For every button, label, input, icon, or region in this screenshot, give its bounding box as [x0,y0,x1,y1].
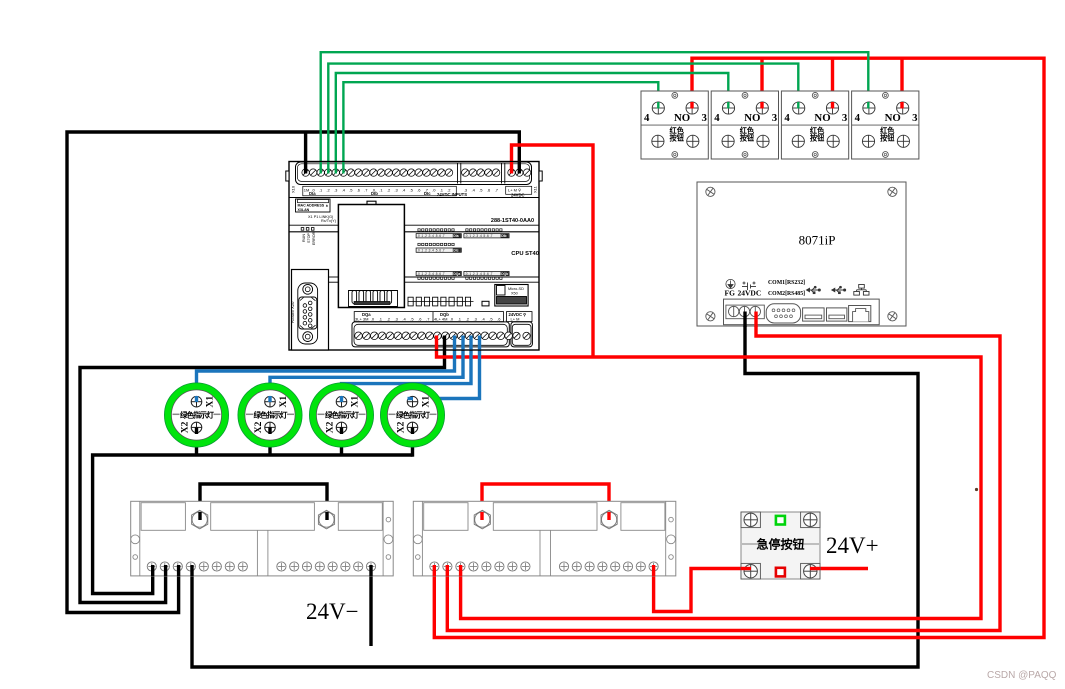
wire black lights common rail [93,455,413,594]
wire end stubs overlaying terminals [153,102,902,576]
HMI FG ground icon [726,279,735,288]
wire red PLC output 3L+ rail to TB2 terminal 3 [437,338,982,619]
svg-text:X1: X1 [206,396,216,408]
svg-text:DIb: DIb [501,234,506,238]
wire stub red PLC top L+ [510,162,513,174]
svg-text:288-1ST40-0AA0: 288-1ST40-0AA0 [491,218,534,224]
wire red button3 drop [831,58,834,109]
svg-text:X10: X10 [291,185,296,193]
wire stubs green PLC top DI [320,162,322,174]
svg-text:3: 3 [912,112,918,124]
svg-text:急停按钮: 急停按钮 [756,537,804,552]
wire red buttons common to TB2 terminal 1 [434,58,1044,637]
svg-text:NO: NO [814,112,830,124]
PLC bottom terminal strip [352,322,509,347]
HMI corner screw top-right [888,187,897,196]
wire stubs TB2 hex jumper [480,512,483,520]
PLC bottom label row [354,312,532,322]
SB1 lower screw right [687,135,699,147]
wire green PLC DIa.4 to button3 [328,64,798,166]
svg-text:DQa: DQa [453,272,460,276]
SB4 lower screw right [897,135,909,147]
svg-text:COM1[RS232]: COM1[RS232] [768,280,805,286]
SB4 lower screw left [862,135,874,147]
pushbutton SB3 红色按钮 [781,91,848,159]
HL3 terminal X2 screw [336,422,347,433]
PLC RUN STOP ERROR LEDs [301,228,316,245]
PLC LED row B squares DIc [416,243,461,252]
svg-text:X2: X2 [254,421,264,433]
wire stubs estop [741,567,751,570]
svg-text:Micro-SD: Micro-SD [508,287,524,291]
indicator light HL4 绿色指示灯 [380,383,444,447]
svg-text:X50: X50 [511,292,518,296]
svg-text:X2: X2 [181,421,191,433]
SB3 terminal 3 screw [826,102,838,114]
wire black light3 X2 drop [340,427,343,455]
svg-text:CPU ST40: CPU ST40 [511,251,539,257]
estop screw top-right [804,513,817,526]
PLC RS485 DB9 compartment [292,270,329,351]
indicator light HL3 绿色指示灯 [309,383,373,447]
svg-text:ERROR: ERROR [312,231,316,245]
wire black light1 X2 drop [195,427,198,455]
svg-text:DQb: DQb [501,272,508,276]
PLC bottom terminals L+ M (2 screws) [513,332,530,339]
SB1 terminal 3 screw [686,102,698,114]
svg-text:DIb: DIb [371,191,378,196]
wire black TB1 jumper [200,484,327,519]
estop screw top-left [744,513,757,526]
svg-text:.0 .1 .2 .3 .4 .5 .6 .7: .0 .1 .2 .3 .4 .5 .6 .7 [417,249,445,253]
svg-text:绿色指示灯: 绿色指示灯 [180,409,214,419]
estop screw bottom-right [804,565,817,578]
PLC right mounting tab [539,171,542,181]
wire black light2 X2 drop [268,427,271,455]
HMI ethernet icon [854,285,869,296]
SB2 lower screw right [757,135,769,147]
svg-text:X1: X1 [279,396,289,408]
wire black HMI 0V to TB1 terminal 4 [192,310,918,667]
PLC DB9 connector [298,283,318,344]
svg-text:绿色指示灯: 绿色指示灯 [396,409,430,419]
PLC left mounting tab [286,171,289,181]
svg-text:DIc: DIc [453,249,458,253]
svg-text:按钮: 按钮 [670,134,685,143]
svg-text:.0 .1 .2 .3 .4 .5 .6 .7: .0 .1 .2 .3 .4 .5 .6 .7 [417,272,445,276]
svg-text:DIa: DIa [309,191,316,196]
wire stubs PLC bottom [435,336,438,350]
HMI corner screw bottom-right [888,312,897,321]
PLC bottom terminals (18 screws) [355,332,513,340]
svg-text:DIa: DIa [453,234,458,238]
svg-text:4: 4 [644,112,650,124]
wire green PLC DIa.5 to button2 [336,73,729,166]
HMI bottom connector strip [724,299,880,325]
svg-text:L+ M: L+ M [511,317,520,322]
wire stubs TB2 bottom terminals [433,565,436,576]
wire red TB2 jumper [482,484,609,519]
HL4 terminal X2 screw [407,422,418,433]
wire stubs red buttons [690,102,693,109]
svg-text:绿色指示灯: 绿色指示灯 [254,409,288,419]
wire black light4 X2 drop [411,427,414,457]
TB2 bottom terminal screws [430,562,439,571]
svg-text:24VDC INPUTS: 24VDC INPUTS [437,192,467,197]
wire blue PLC DQ to light2 X1 [270,338,463,402]
svg-text:DIc: DIc [424,191,431,196]
TB1 hex terminal B [318,510,334,529]
svg-text:3: 3 [842,112,848,124]
pushbutton SB4 红色按钮 [852,91,919,159]
wire stubs lights X2 black [195,427,198,434]
svg-text:X3LAN: X3LAN [298,208,310,212]
svg-text:3: 3 [772,112,778,124]
wire black branch to PLC 1M terminal [304,132,307,166]
wire blue PLC DQ to light4 X1 [412,338,480,399]
wire stub black PLC top 1M [304,162,307,174]
wire red estop to 24V+ stub [810,567,868,570]
PLC MAC ADDRESS box [296,199,331,212]
HMI RJ45 ethernet port [849,306,871,322]
wire stubs lights X1 blue [195,396,198,402]
svg-text:NO: NO [674,112,690,124]
svg-text:RUN: RUN [302,234,306,242]
svg-text:X11: X11 [533,185,538,193]
svg-text:Rx/Tx(Y): Rx/Tx(Y) [321,219,337,223]
PLC vent slots row [408,297,489,306]
svg-text:3M: 3M [363,317,369,322]
HMI USB port 2 [827,308,847,321]
wire green PLC DIa.6 to button1 [343,82,658,166]
svg-text:NO: NO [885,112,901,124]
svg-text:8071iP: 8071iP [799,233,836,248]
TB2 hex terminal A [474,510,490,529]
terminal block TB2 [413,501,676,576]
svg-text:4M: 4M [442,317,448,322]
svg-text:COM2[RS485]: COM2[RS485] [768,291,805,297]
PLC divider double line 1 [289,224,539,226]
wire stubs HMI power [743,312,746,328]
svg-text:4L+: 4L+ [434,317,441,322]
PLC LED row C DQa DQb [416,271,509,279]
SB4 terminal 4 screw [863,102,875,114]
svg-text:3: 3 [702,112,708,124]
SB3 lower screw left [792,135,804,147]
svg-text:4: 4 [784,112,790,124]
stray mark [975,488,978,491]
SB2 terminal 3 screw [756,102,768,114]
wire green PLC DIa.3 to button4 [321,52,869,166]
TB1 bottom terminal screws [147,562,156,571]
wire red PLC L+ top feed [512,145,594,357]
HL2 terminal X1 screw [265,396,276,407]
PLC body outline [289,162,539,351]
PLC top pin label row [291,185,538,198]
SB2 lower screw left [722,135,734,147]
wire stubs TB1 bottom terminals [151,565,154,576]
PLC comb connector under door [349,291,398,307]
svg-text:X2: X2 [326,421,336,433]
wire black net 24V-: PLC bottom 3M to TB1 terminal 2 [80,338,445,603]
SB4 terminal 3 screw [897,102,909,114]
SB1 lower screw left [652,135,664,147]
wire black net M top: PLC top M/1M to TB1 terminal 3 [67,132,519,613]
wire stubs green buttons [657,102,659,109]
indicator light HL2 绿色指示灯 [238,383,302,447]
estop red lamp square [776,568,785,577]
svg-text:3L+: 3L+ [355,317,362,322]
svg-text:按钮: 按钮 [880,134,895,143]
svg-text:.0 .1 .2 .3 .4 .5 .6 .7: .0 .1 .2 .3 .4 .5 .6 .7 [465,272,493,276]
svg-text:24VDC: 24VDC [738,289,762,298]
wire red TB2 to estop [654,566,751,612]
wire blue PLC DQ to light3 X1 [342,338,472,402]
svg-text:X2: X2 [397,421,407,433]
svg-text:24V+: 24V+ [826,533,879,558]
svg-text:.0 .1 .2 .3 .4 .5 .6 .7: .0 .1 .2 .3 .4 .5 .6 .7 [465,234,493,238]
PLC LED row A squares DIa DIb [416,229,509,238]
svg-text:24VDC: 24VDC [511,193,525,198]
PLC top terminals group2 (5 screws) [462,169,500,176]
HMI USB icon 2 [832,286,846,293]
svg-text:FG: FG [725,289,736,298]
TB2 hex terminal B [601,510,617,529]
pushbutton SB1 红色按钮 [641,91,708,159]
svg-text:RS485 X20: RS485 X20 [290,301,295,323]
HMI USB port 1 [803,308,825,321]
wire red HMI 24V to TB2 terminal 2 [447,310,1000,631]
HL1 terminal X2 screw [191,422,202,433]
wire red button4 drop [900,58,903,109]
wire stubs TB1 hex jumper [198,512,201,520]
indicator light HL1 绿色指示灯 [164,383,228,447]
svg-text:24V−: 24V− [306,599,359,624]
HL3 terminal X1 screw [336,396,347,407]
PLC micro-SD slot [495,285,528,307]
HL4 terminal X1 screw [407,396,418,407]
SB3 lower screw right [827,135,839,147]
PLC section line under labels [289,197,539,199]
SB3 terminal 4 screw [793,102,805,114]
wire red button2 drop [760,58,763,109]
SB2 terminal 4 screw [722,102,734,114]
HMI power terminal block [726,305,764,319]
svg-text:4: 4 [855,112,861,124]
svg-text:.0 .1 .2 .3 .4 .5 .6 .7: .0 .1 .2 .3 .4 .5 .6 .7 [417,234,445,238]
svg-text:X1: X1 [351,396,361,408]
HMI USB icon 1 [807,286,821,293]
svg-text:绿色指示灯: 绿色指示灯 [325,409,359,419]
HL1 terminal X1 screw [191,396,202,407]
svg-text:STOP: STOP [307,232,311,243]
wire blue PLC DQ to light1 X1 [197,338,455,402]
svg-text:按钮: 按钮 [810,134,825,143]
svg-text:CSDN @PAQQ: CSDN @PAQQ [987,670,1057,681]
PLC top terminals DIa/DIb/DIc (24 screws) [302,169,453,176]
HMI body [697,182,906,326]
HMI DB9 COM port [766,304,800,323]
terminal block TB1 [131,501,394,576]
estop label 急停按钮 [742,543,759,545]
estop screw bottom-left [744,565,757,578]
HL2 terminal X2 screw [265,422,276,433]
SB1 terminal 4 screw [652,102,664,114]
svg-text:NO: NO [744,112,760,124]
wire black 24V- stub [369,566,372,646]
HMI corner screw bottom-left [706,312,715,321]
svg-text:4: 4 [714,112,720,124]
pushbutton SB2 红色按钮 [711,91,778,159]
wire stub black PLC top M [518,162,521,174]
PLC top terminals 24VDC L+ M (3 screws) [508,169,531,176]
svg-text:X1: X1 [422,396,432,408]
HMI corner screw top-left [706,187,715,196]
PLC divider double line 2 [328,276,338,278]
PLC top terminal strip X10/X11 [296,162,532,185]
estop green lamp square [776,516,785,525]
svg-text:按钮: 按钮 [740,134,755,143]
TB1 hex terminal A [192,510,208,529]
PLC terminal door big rect [367,201,376,205]
HMI 24VDC battery icon [742,282,756,291]
